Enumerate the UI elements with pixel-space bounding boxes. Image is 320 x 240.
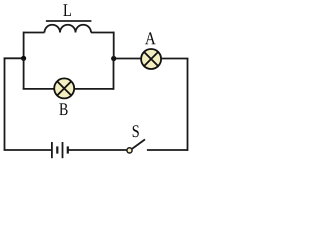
battery long plate 1 (51, 142, 53, 158)
battery short plate 1 (56, 146, 58, 153)
label S (133, 125, 139, 137)
wire: inductor left lead (24, 32, 45, 34)
wire: lamp A to right node (114, 58, 141, 60)
label L (63, 4, 71, 16)
wire: bottom from left corner to battery (4, 149, 52, 151)
battery short plate 2 (67, 146, 69, 153)
wire: left node down to lamp B level (23, 58, 25, 89)
wire: left riser from node to inductor level (23, 32, 25, 59)
wire: right riser from lamp B level up to right node (113, 59, 115, 90)
wire: bottom from switch to right corner (147, 149, 188, 151)
label B (59, 103, 67, 115)
inductor L coil (3 humps) (45, 25, 92, 33)
switch S blade (open) (132, 139, 145, 149)
wire: left stub from outer wire to left node (4, 57, 24, 59)
inductor core bar (46, 20, 92, 22)
label A (145, 32, 155, 44)
battery long plate 2 (62, 142, 64, 158)
lamp A (141, 49, 161, 69)
wire: lamp B left lead (23, 88, 54, 90)
wire: top right from corner to lamp A (162, 58, 189, 60)
lamp B (54, 78, 74, 98)
wire: right node up to inductor level (113, 32, 115, 59)
node: right junction dot (111, 56, 116, 61)
node: left junction dot (21, 56, 26, 61)
wire: left outer vertical (4, 58, 6, 151)
wire: inductor right lead (91, 32, 114, 34)
wire: right outer vertical (187, 59, 189, 151)
battery cell plates (52, 142, 68, 158)
switch S pivot circle (127, 148, 132, 153)
wire: bottom from battery to switch (68, 149, 127, 151)
wire: lamp B right lead (75, 88, 114, 90)
